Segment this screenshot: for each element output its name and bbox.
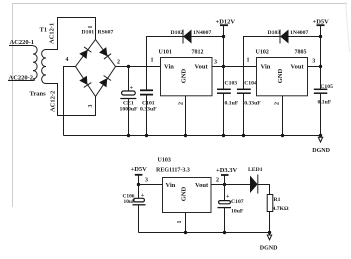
svg-text:7812: 7812 xyxy=(192,50,204,56)
svg-text:3: 3 xyxy=(145,178,148,184)
bridge diode top-left xyxy=(79,47,91,59)
ground DGND lower xyxy=(260,231,278,252)
svg-text:10uF: 10uF xyxy=(231,208,244,214)
svg-text:2: 2 xyxy=(274,102,281,105)
wire secondary bottom to bridge xyxy=(46,84,96,116)
svg-text:1000uF: 1000uF xyxy=(120,106,139,112)
capacitor C101 xyxy=(140,67,157,136)
svg-text:GND: GND xyxy=(277,68,284,83)
svg-text:U103: U103 xyxy=(158,158,171,164)
bridge pin 1 overbar mark xyxy=(88,26,92,28)
junction +D5V / C106 node xyxy=(137,183,140,186)
svg-text:4.7KΩ: 4.7KΩ xyxy=(273,206,290,212)
svg-text:D102: D102 xyxy=(171,30,184,36)
svg-text:GND: GND xyxy=(181,68,188,83)
svg-text:10uF: 10uF xyxy=(124,199,136,205)
power symbol +D3.3V xyxy=(216,167,238,201)
wire U103 pin 2 to LED xyxy=(211,184,250,186)
svg-text:0.1uF: 0.1uF xyxy=(318,99,332,105)
svg-text:1: 1 xyxy=(247,58,250,64)
bridge diode bottom-left xyxy=(79,76,91,88)
junction bus CE1 xyxy=(127,134,130,137)
svg-text:1N4007: 1N4007 xyxy=(290,30,308,36)
svg-text:C105: C105 xyxy=(320,84,333,90)
svg-text:2: 2 xyxy=(117,60,120,66)
wire U101 pin 2 to ground bus xyxy=(185,96,187,136)
svg-text:DGND: DGND xyxy=(312,148,330,154)
regulator U103 REG1117-3.3 xyxy=(156,158,211,213)
page frame top edge xyxy=(12,3,347,5)
svg-text:C103: C103 xyxy=(225,80,238,86)
junction +D12V diode node xyxy=(222,35,225,38)
junction bus C103 xyxy=(222,134,225,137)
svg-text:DGND: DGND xyxy=(260,246,278,252)
svg-text:Vin: Vin xyxy=(166,182,176,189)
svg-text:0.33uF: 0.33uF xyxy=(244,100,261,106)
svg-text:1: 1 xyxy=(151,58,154,64)
svg-text:2: 2 xyxy=(216,178,219,184)
diode D102 wire xyxy=(147,37,224,67)
junction node 2 / CE1 xyxy=(127,65,130,68)
diode D103 wire xyxy=(244,37,321,67)
diode D102 xyxy=(171,30,212,44)
regulator U101 7812 xyxy=(159,50,213,96)
svg-text:+D5V: +D5V xyxy=(131,166,148,173)
junction +D5V diode node xyxy=(319,35,322,38)
net label AC220-2 xyxy=(8,75,33,82)
bottom ground bus wire xyxy=(139,232,270,234)
wire secondary top to bridge xyxy=(46,18,96,50)
power symbol +D5V lower xyxy=(131,166,148,199)
svg-text:AC12-2: AC12-2 xyxy=(50,91,57,112)
junction bus U101 pin2 xyxy=(184,134,187,137)
diode D103 xyxy=(268,30,309,44)
svg-text:2: 2 xyxy=(178,102,185,105)
ground bus wire xyxy=(64,135,321,137)
svg-text:4: 4 xyxy=(66,57,69,63)
svg-text:LED1: LED1 xyxy=(248,167,263,173)
junction bus U103 GND xyxy=(184,231,187,234)
junction bus C104 xyxy=(242,134,245,137)
svg-text:U101: U101 xyxy=(159,50,172,56)
capacitor C106 xyxy=(123,193,146,233)
junction bus C107 xyxy=(223,231,226,234)
capacitor C104 xyxy=(237,67,261,136)
svg-text:REG1117-3.3: REG1117-3.3 xyxy=(156,168,190,174)
svg-text:1N4007: 1N4007 xyxy=(193,30,211,36)
page frame right edge xyxy=(346,2,350,52)
capacitor C105 xyxy=(314,84,333,136)
svg-text:RS607: RS607 xyxy=(98,30,114,36)
svg-text:3: 3 xyxy=(312,59,315,65)
wire LED to resistor xyxy=(258,185,270,195)
svg-text:Vout: Vout xyxy=(291,64,305,71)
svg-text:C107: C107 xyxy=(231,199,244,205)
svg-text:AC220-1: AC220-1 xyxy=(10,39,35,46)
junction bus U102 pin2 xyxy=(281,134,284,137)
LED1 xyxy=(248,167,263,193)
svg-text:T1: T1 xyxy=(40,27,48,34)
wire bridge minus to ground bus xyxy=(64,67,76,136)
junction +D3.3V node xyxy=(223,183,226,186)
svg-text:Vin: Vin xyxy=(261,64,271,71)
svg-text:AC12-1: AC12-1 xyxy=(49,23,56,44)
svg-text:R1: R1 xyxy=(274,197,281,203)
power symbol +D5V xyxy=(313,19,330,89)
svg-text:0.33uF: 0.33uF xyxy=(140,106,157,112)
svg-text:7805: 7805 xyxy=(295,50,307,56)
svg-text:Vout: Vout xyxy=(195,64,209,71)
ground DGND upper xyxy=(312,134,330,154)
svg-text:3: 3 xyxy=(214,60,217,66)
wire U102 pin 2 to ground bus xyxy=(282,96,284,136)
junction +D12V output node xyxy=(222,65,225,68)
wire resistor to bottom bus xyxy=(269,212,271,233)
wire U102 pin 3 to +D5V xyxy=(308,66,321,68)
svg-text:+: + xyxy=(226,194,230,200)
wire +D5V to U103 pin 3 xyxy=(139,184,163,186)
page frame left edge xyxy=(12,4,14,208)
svg-text:1: 1 xyxy=(177,221,183,224)
svg-text:U102: U102 xyxy=(256,50,269,56)
svg-text:D103: D103 xyxy=(268,30,281,36)
net label AC220-1 xyxy=(9,39,34,46)
svg-text:0.1uF: 0.1uF xyxy=(225,100,239,106)
svg-text:Vout: Vout xyxy=(195,182,209,189)
power symbol +D12V xyxy=(216,19,236,89)
svg-text:Vin: Vin xyxy=(164,64,174,71)
svg-text:D101: D101 xyxy=(82,30,95,36)
transformer T1 secondary winding xyxy=(42,50,46,84)
svg-text:Trans: Trans xyxy=(30,91,47,98)
junction +D5V output node xyxy=(319,65,322,68)
capacitor CE1 xyxy=(120,67,139,136)
transformer T1 primary winding xyxy=(32,46,37,81)
capacitor C103 xyxy=(217,80,239,135)
regulator U102 7805 xyxy=(256,50,308,96)
bridge diode top-right xyxy=(99,47,111,59)
bridge diode bottom-right xyxy=(99,76,111,88)
wire U101 pin 3 to U102 pin 1 xyxy=(212,66,257,68)
wire bridge output node 2 to U101 pin 1 xyxy=(116,66,161,68)
junction bus C101 xyxy=(145,134,148,137)
svg-text:GND: GND xyxy=(181,186,188,201)
bridge rectifier D101 diamond xyxy=(76,40,116,97)
capacitor C107 xyxy=(218,194,244,233)
svg-text:3: 3 xyxy=(88,105,94,108)
resistor R1 xyxy=(267,195,289,212)
svg-text:C104: C104 xyxy=(244,80,257,86)
wire U103 GND pin to bottom bus xyxy=(185,213,187,233)
svg-text:+D3.3V: +D3.3V xyxy=(216,167,238,174)
